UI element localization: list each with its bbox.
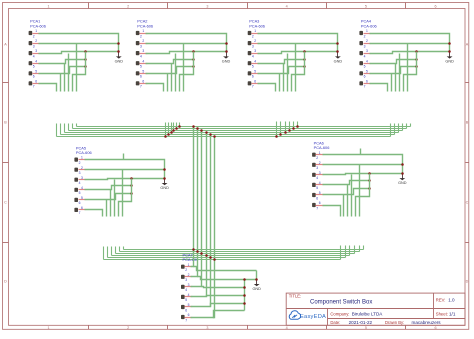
svg-text:PCA-606: PCA-606 (76, 150, 92, 155)
svg-text:2: 2 (35, 39, 37, 43)
svg-text:GND: GND (398, 181, 407, 185)
svg-text:C: C (466, 201, 469, 205)
svg-text:1: 1 (47, 5, 49, 9)
svg-text:7: 7 (140, 85, 142, 89)
svg-text:6: 6 (142, 79, 144, 83)
svg-text:6: 6 (434, 5, 436, 9)
svg-text:1: 1 (188, 263, 190, 267)
svg-text:4: 4 (35, 59, 37, 63)
svg-text:6: 6 (185, 308, 187, 312)
svg-text:C: C (4, 201, 7, 205)
svg-text:Date:: Date: (330, 320, 340, 325)
svg-text:1: 1 (319, 151, 321, 155)
svg-text:3: 3 (254, 49, 256, 53)
svg-text:5: 5 (252, 65, 254, 69)
svg-text:3: 3 (316, 166, 318, 170)
svg-text:4: 4 (319, 181, 321, 185)
svg-text:2: 2 (366, 39, 368, 43)
svg-text:4: 4 (364, 54, 366, 58)
svg-text:3: 3 (206, 5, 208, 9)
svg-text:2: 2 (252, 34, 254, 38)
svg-text:PCA-606: PCA-606 (137, 23, 153, 28)
svg-text:4: 4 (140, 54, 142, 58)
svg-text:5: 5 (365, 326, 367, 330)
svg-text:5: 5 (140, 65, 142, 69)
svg-text:5: 5 (254, 69, 256, 73)
svg-text:GND: GND (252, 287, 261, 291)
svg-text:PCA-606: PCA-606 (361, 23, 377, 28)
svg-text:PCA-606: PCA-606 (249, 23, 265, 28)
svg-text:4: 4 (142, 59, 144, 63)
svg-text:5: 5 (319, 191, 321, 195)
svg-text:2: 2 (188, 273, 190, 277)
svg-text:5: 5 (81, 196, 83, 200)
svg-text:PCA-606: PCA-606 (314, 145, 330, 150)
svg-text:2: 2 (364, 34, 366, 38)
svg-text:5: 5 (35, 69, 37, 73)
svg-text:5: 5 (364, 65, 366, 69)
svg-text:6: 6 (366, 79, 368, 83)
svg-text:GND: GND (115, 59, 124, 63)
svg-text:2: 2 (319, 161, 321, 165)
svg-text:EasyEDA: EasyEDA (300, 314, 326, 320)
svg-text:TITLE:: TITLE: (289, 294, 302, 299)
svg-text:3: 3 (35, 49, 37, 53)
svg-text:2021-01-22: 2021-01-22 (349, 320, 373, 325)
svg-text:5: 5 (366, 69, 368, 73)
svg-text:2: 2 (79, 161, 81, 165)
svg-text:5: 5 (142, 69, 144, 73)
svg-text:Sheet:: Sheet: (436, 311, 448, 316)
svg-text:3: 3 (252, 44, 254, 48)
svg-text:1/1: 1/1 (449, 311, 456, 316)
svg-text:1: 1 (366, 29, 368, 33)
svg-text:3: 3 (81, 176, 83, 180)
svg-text:Component Switch Box: Component Switch Box (310, 300, 372, 306)
svg-text:2: 2 (81, 166, 83, 170)
svg-text:3: 3 (188, 283, 190, 287)
svg-text:5: 5 (365, 5, 367, 9)
svg-text:5: 5 (33, 65, 35, 69)
svg-text:2: 2 (142, 39, 144, 43)
svg-text:6: 6 (319, 201, 321, 205)
svg-text:PCA-606: PCA-606 (183, 257, 199, 262)
svg-text:1: 1 (47, 326, 49, 330)
svg-text:3: 3 (206, 326, 208, 330)
svg-text:4: 4 (79, 181, 81, 185)
svg-text:GND: GND (160, 186, 169, 190)
svg-text:6: 6 (316, 196, 318, 200)
svg-text:macabreuzers: macabreuzers (412, 320, 442, 325)
svg-text:GND: GND (222, 59, 231, 63)
svg-text:5: 5 (79, 191, 81, 195)
svg-text:GND: GND (445, 59, 454, 63)
svg-text:4: 4 (366, 59, 368, 63)
svg-text:5: 5 (316, 186, 318, 190)
svg-text:PCA-606: PCA-606 (30, 23, 46, 28)
svg-text:7: 7 (252, 85, 254, 89)
svg-text:6: 6 (254, 79, 256, 83)
svg-text:Biruleibe LTDA: Biruleibe LTDA (352, 311, 383, 316)
svg-text:D: D (466, 280, 469, 284)
svg-text:2: 2 (185, 268, 187, 272)
svg-text:5: 5 (188, 303, 190, 307)
svg-text:4: 4 (316, 176, 318, 180)
svg-text:4: 4 (286, 5, 288, 9)
svg-text:7: 7 (316, 206, 318, 210)
svg-text:6: 6 (364, 75, 366, 79)
svg-text:4: 4 (188, 293, 190, 297)
svg-text:3: 3 (79, 171, 81, 175)
svg-text:2: 2 (127, 5, 129, 9)
svg-text:1: 1 (81, 156, 83, 160)
svg-text:Drawn By:: Drawn By: (385, 320, 404, 325)
svg-text:GND: GND (334, 59, 343, 63)
svg-text:REV:: REV: (436, 297, 446, 302)
svg-text:1.0: 1.0 (448, 297, 455, 302)
svg-text:2: 2 (127, 326, 129, 330)
svg-text:1: 1 (35, 29, 37, 33)
svg-text:7: 7 (33, 85, 35, 89)
svg-text:3: 3 (366, 49, 368, 53)
svg-text:7: 7 (79, 211, 81, 215)
svg-text:1: 1 (254, 29, 256, 33)
svg-text:4: 4 (33, 54, 35, 58)
svg-text:1: 1 (142, 29, 144, 33)
svg-text:7: 7 (364, 85, 366, 89)
svg-text:3: 3 (140, 44, 142, 48)
svg-text:6: 6 (434, 326, 436, 330)
svg-text:5: 5 (185, 298, 187, 302)
svg-text:2: 2 (254, 39, 256, 43)
svg-text:6: 6 (188, 313, 190, 317)
svg-text:6: 6 (252, 75, 254, 79)
svg-text:6: 6 (35, 79, 37, 83)
svg-text:2: 2 (140, 34, 142, 38)
svg-text:3: 3 (319, 171, 321, 175)
svg-text:4: 4 (185, 288, 187, 292)
svg-text:3: 3 (33, 44, 35, 48)
svg-text:6: 6 (140, 75, 142, 79)
svg-text:4: 4 (254, 59, 256, 63)
svg-text:4: 4 (252, 54, 254, 58)
svg-text:4: 4 (81, 186, 83, 190)
svg-text:6: 6 (81, 206, 83, 210)
svg-text:4: 4 (286, 326, 288, 330)
svg-text:3: 3 (364, 44, 366, 48)
svg-text:Company:: Company: (330, 311, 349, 316)
svg-text:2: 2 (33, 34, 35, 38)
svg-text:6: 6 (33, 75, 35, 79)
svg-text:7: 7 (185, 318, 187, 322)
svg-text:3: 3 (142, 49, 144, 53)
svg-text:3: 3 (185, 278, 187, 282)
svg-text:D: D (4, 280, 7, 284)
svg-text:6: 6 (79, 201, 81, 205)
svg-text:2: 2 (316, 156, 318, 160)
